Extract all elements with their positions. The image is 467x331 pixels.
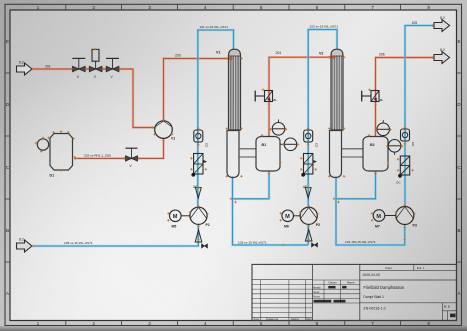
right section lines xyxy=(360,264,457,320)
funnel AF above P2 xyxy=(303,185,311,198)
wire blue V2 bottoms line 104 xyxy=(336,177,405,246)
svg-text:B: B xyxy=(6,228,9,233)
svg-text:E: E xyxy=(457,39,460,44)
ruler tick marks top xyxy=(66,4,401,10)
svg-text:AF: AF xyxy=(303,185,307,189)
svg-text:3: 3 xyxy=(148,321,151,326)
svg-text:6: 6 xyxy=(316,321,319,326)
svg-text:103-xx-15-INL-xIS71: 103-xx-15-INL-xIS71 xyxy=(238,240,267,244)
pump P3 xyxy=(396,207,417,228)
svg-text:5: 5 xyxy=(260,321,263,326)
column V2 xyxy=(319,49,343,177)
wire blue top header 101 xyxy=(198,30,234,207)
flow meter on line to P2 xyxy=(304,130,319,148)
svg-text:M: M xyxy=(285,214,290,220)
svg-text:2: 2 xyxy=(92,5,95,10)
title block texts xyxy=(254,266,456,321)
control valve on B2 top line xyxy=(362,91,384,102)
svg-text:B1: B1 xyxy=(262,143,267,147)
drain valve at P1 suction xyxy=(202,244,208,248)
entry arrow flag bottom left xyxy=(17,240,33,252)
ruler letters left xyxy=(6,39,10,296)
svg-text:AF: AF xyxy=(193,185,197,189)
svg-text:7: 7 xyxy=(371,5,374,10)
svg-text:Name: Name xyxy=(347,281,355,285)
wire red feed line 201 xyxy=(32,69,155,128)
vessel D1 xyxy=(37,134,72,178)
svg-text:8: 8 xyxy=(427,5,430,10)
ruler numbers top xyxy=(37,5,431,10)
svg-text:7: 7 xyxy=(371,321,374,326)
valve V on D1 line xyxy=(126,148,138,168)
funnel AF above P1 xyxy=(193,185,201,198)
directional valve on line to P2 xyxy=(301,154,317,177)
svg-text:V1: V1 xyxy=(216,51,220,55)
svg-text:2: 2 xyxy=(92,321,95,326)
valve V feed 1 xyxy=(72,58,85,78)
ruler tick marks bottom xyxy=(66,321,401,326)
svg-text:102-xx-15-INL-xIS71: 102-xx-15-INL-xIS71 xyxy=(310,25,339,29)
directional valve on line to P3 xyxy=(396,156,410,185)
svg-text:8.2: 8.2 xyxy=(440,48,445,52)
wire gray V2-B2 links xyxy=(342,149,364,157)
svg-text:B: B xyxy=(457,228,460,233)
svg-text:8.2: 8.2 xyxy=(440,16,445,20)
ruler tick marks left xyxy=(5,73,10,262)
svg-text:201: 201 xyxy=(45,64,51,68)
svg-text:101-xx-15-INL-xIS71: 101-xx-15-INL-xIS71 xyxy=(200,25,229,29)
svg-text:204: 204 xyxy=(276,51,282,55)
wire red D1 outlet 202 xyxy=(74,138,164,158)
title block frame xyxy=(252,264,457,320)
exit arrow flag mid right xyxy=(434,52,450,64)
svg-text:Zust.: Zust. xyxy=(254,317,260,321)
svg-text:Datum: Datum xyxy=(291,317,300,321)
ruler tick marks right xyxy=(457,73,462,262)
vessel B2 xyxy=(363,137,388,172)
svg-text:Dampf Blatt 1: Dampf Blatt 1 xyxy=(363,295,384,299)
valve V feed 3 xyxy=(106,58,119,78)
entry arrow flag top left xyxy=(17,63,33,75)
svg-text:M: M xyxy=(376,214,381,220)
svg-text:Änderung: Änderung xyxy=(266,317,279,321)
svg-text:P2: P2 xyxy=(316,223,320,227)
revision table rows xyxy=(252,280,312,321)
svg-text:M7: M7 xyxy=(375,224,380,228)
wire blue V1 bottoms line 103 xyxy=(233,177,309,246)
svg-text:V1: V1 xyxy=(171,137,175,141)
condenser W circle B2 lower xyxy=(388,140,401,156)
wire blue B1 bottom leg xyxy=(233,171,269,199)
drain valve at P2 suction xyxy=(312,243,318,247)
wire blue line 105 to top exit xyxy=(405,26,434,207)
svg-text:Bl. B: Bl. B xyxy=(444,305,450,309)
svg-text:206: 206 xyxy=(379,52,385,56)
exit arrow flag top right xyxy=(434,20,450,32)
ruler letters right xyxy=(457,39,461,296)
svg-text:D1: D1 xyxy=(50,174,55,178)
signature section lines xyxy=(312,280,359,303)
svg-text:Datum: Datum xyxy=(329,281,338,285)
flow meter on line to P3 xyxy=(401,129,416,147)
wire red B1 top to V2 line 204 xyxy=(269,57,330,136)
svg-text:6: 6 xyxy=(316,5,319,10)
svg-text:104-150-15-INL-xIS71: 104-150-15-INL-xIS71 xyxy=(345,240,376,244)
svg-text:Norm: Norm xyxy=(313,295,321,299)
pump P2 xyxy=(300,207,320,227)
condenser W circle B1 upper xyxy=(272,120,285,136)
valve V feed 2 with actuator box xyxy=(89,49,102,78)
svg-text:M5: M5 xyxy=(172,225,177,229)
motor M6 xyxy=(282,210,300,229)
wire red B2 top to exit line 206 xyxy=(376,58,435,137)
condenser W circle B2 upper xyxy=(377,120,390,136)
svg-text:Urspr.: Urspr. xyxy=(385,266,393,270)
wire blue top header 102 xyxy=(308,30,337,208)
svg-text:2006-04-05: 2006-04-05 xyxy=(363,273,380,277)
control valve on B1 top line xyxy=(255,91,277,102)
svg-text:M6: M6 xyxy=(284,225,289,229)
wire blue P2 suction drop xyxy=(307,225,310,245)
motor M7 xyxy=(373,210,396,229)
ruler numbers bottom xyxy=(37,321,431,326)
motor M5 xyxy=(170,210,190,229)
svg-text:Gepr.: Gepr. xyxy=(313,290,320,294)
wire blue B2 bottom leg xyxy=(337,171,376,199)
svg-text:203: 203 xyxy=(175,53,181,57)
svg-text:V2: V2 xyxy=(319,52,323,56)
svg-text:M: M xyxy=(173,214,178,220)
wire gray V1-B1 links xyxy=(239,149,256,157)
wire red pump V1 discharge 203 xyxy=(164,59,229,121)
svg-text:E: E xyxy=(6,39,9,44)
wire blue bottom suction header 105 left xyxy=(33,225,199,246)
svg-text:8: 8 xyxy=(427,321,430,326)
pump V1 circle xyxy=(155,121,176,141)
connection point marks xyxy=(32,24,434,247)
cone below P1 xyxy=(195,230,202,242)
svg-text:4: 4 xyxy=(204,321,207,326)
svg-text:P1: P1 xyxy=(206,223,210,227)
svg-text:Ers. f.: Ers. f. xyxy=(417,266,425,270)
svg-text:1: 1 xyxy=(37,5,40,10)
svg-text:105-xx-15-INL-xIS71: 105-xx-15-INL-xIS71 xyxy=(64,241,93,245)
pump P1 xyxy=(190,207,210,227)
svg-text:5: 5 xyxy=(260,5,263,10)
bottom edge dark strip xyxy=(0,326,467,331)
svg-text:B2: B2 xyxy=(370,143,375,147)
svg-text:202-xx-RN1.1_SDK: 202-xx-RN1.1_SDK xyxy=(84,154,112,158)
svg-text:ZN-00216-1.0: ZN-00216-1.0 xyxy=(363,307,385,311)
column V1 xyxy=(216,49,241,177)
svg-text:8.2: 8.2 xyxy=(19,237,24,241)
cone below P2 xyxy=(305,230,312,242)
svg-text:8.2: 8.2 xyxy=(19,60,24,64)
condenser W circle B1 lower xyxy=(280,138,297,151)
svg-text:Bearb.: Bearb. xyxy=(313,285,321,289)
svg-text:1: 1 xyxy=(37,321,40,326)
flow meter on line to P1 xyxy=(194,130,209,148)
svg-text:105: 105 xyxy=(412,21,418,25)
svg-text:3: 3 xyxy=(148,5,151,10)
svg-text:Fließbild Dampfstation: Fließbild Dampfstation xyxy=(363,285,404,290)
svg-text:4: 4 xyxy=(204,5,207,10)
svg-text:Nam.: Nam. xyxy=(306,317,313,321)
vessel B1 xyxy=(256,137,280,172)
svg-text:P3: P3 xyxy=(413,224,417,228)
directional valve on line to P1 xyxy=(191,154,207,177)
